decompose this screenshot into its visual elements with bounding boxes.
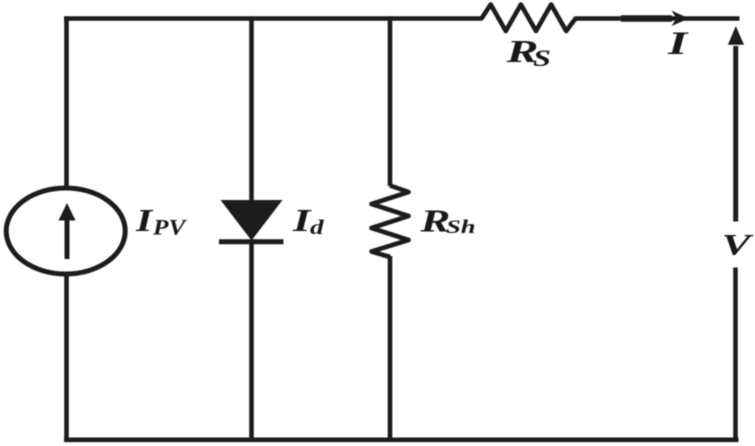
svg-text:PV: PV (152, 216, 188, 240)
svg-text:Sh: Sh (446, 216, 476, 237)
wire left branch lower (64, 275, 69, 440)
current source IPV circle (6, 188, 125, 274)
diode cathode bar (219, 239, 284, 244)
label IPV (135, 203, 188, 240)
wire shunt branch upper (388, 16, 393, 186)
wire top rail with resistor RS zigzag (64, 5, 740, 32)
wire diode branch lower (249, 241, 254, 440)
svg-text:V: V (722, 229, 755, 262)
label RS (505, 34, 551, 72)
svg-text:I: I (667, 26, 689, 62)
wire shunt branch lower (388, 256, 393, 440)
wire bottom rail (64, 437, 739, 442)
svg-text:d: d (310, 216, 325, 239)
svg-text:S: S (533, 46, 551, 71)
diode Id triangle (221, 200, 283, 241)
wire left branch upper (64, 16, 69, 188)
voltage V arrow upper (728, 26, 744, 222)
label RSh (419, 204, 475, 239)
svg-text:I: I (135, 203, 154, 238)
resistor RSh zigzag (372, 186, 409, 258)
wire diode branch upper (249, 16, 254, 201)
current source arrow (59, 203, 76, 259)
label Id (292, 203, 325, 239)
current I arrow on top wire (621, 11, 689, 27)
wire right terminal lower (733, 268, 738, 440)
